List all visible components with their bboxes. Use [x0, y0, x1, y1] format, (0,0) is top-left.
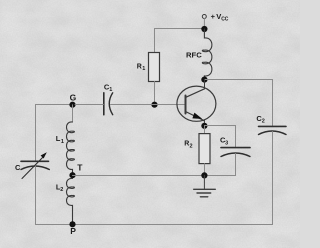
Vcc terminal [202, 15, 206, 19]
svg-text:3: 3 [225, 140, 228, 146]
svg-text:2: 2 [262, 119, 265, 125]
wire C1 to base [111, 104, 186, 106]
wire C3 bottom lead [235, 154, 237, 176]
node junction base/R1 [151, 102, 157, 108]
wire right rail upper [272, 80, 274, 127]
wire bottom rail [36, 224, 273, 226]
wire G to C1 [75, 104, 103, 106]
capacitor C2 [259, 126, 287, 134]
label C2 [256, 114, 264, 125]
wire top rail to R1 [155, 28, 205, 30]
wire R1 top lead [154, 29, 156, 53]
node T [69, 172, 75, 178]
node emitter junction [201, 123, 207, 129]
wire collector to right rail [204, 79, 272, 81]
svg-text:2: 2 [60, 187, 63, 193]
label L1 [56, 134, 64, 145]
svg-text:T: T [77, 162, 83, 172]
node collector junction [201, 77, 207, 83]
inductor L1 [67, 122, 75, 175]
svg-text:+: + [211, 12, 216, 21]
variable capacitor C [21, 152, 49, 178]
wire top left to node G [36, 104, 73, 106]
svg-text:P: P [70, 226, 76, 236]
wire R2 top lead [204, 126, 206, 134]
wire left rail upper [35, 105, 37, 162]
label R1 [137, 63, 146, 72]
wire right rail lower [272, 132, 274, 225]
svg-text:2: 2 [190, 143, 193, 149]
wire G to L1 [72, 105, 74, 122]
label R2 [184, 141, 192, 150]
transistor Q1 [177, 80, 216, 126]
svg-text:1: 1 [61, 139, 64, 145]
wire T to C3 [73, 175, 236, 177]
inductor L2 [67, 178, 75, 224]
label C3 [220, 136, 228, 147]
node P [69, 221, 75, 227]
wire Vcc stub [203, 19, 205, 29]
svg-text:G: G [70, 92, 77, 102]
svg-text:R: R [137, 63, 142, 70]
resistor R2 [199, 134, 210, 164]
node G [69, 102, 75, 108]
resistor R1 [149, 53, 160, 82]
svg-text:C: C [15, 163, 21, 172]
wire C3 top lead [235, 126, 237, 148]
wire emitter to C3 [204, 125, 235, 127]
label +Vcc [211, 12, 229, 23]
svg-text:1: 1 [142, 66, 145, 72]
ground [194, 176, 216, 197]
node ground junction [201, 172, 207, 178]
capacitor C3 [221, 148, 250, 157]
wire R1 bottom lead [154, 82, 156, 105]
capacitor C1 [104, 93, 113, 115]
inductor RFC [202, 29, 212, 80]
wire R2 bottom lead [204, 164, 206, 176]
svg-text:CC: CC [221, 17, 229, 23]
node junction at Vcc rail [201, 26, 207, 32]
wire left rail lower [35, 166, 37, 225]
svg-text:RFC: RFC [186, 50, 202, 59]
label L2 [56, 182, 63, 193]
label C1 [104, 82, 112, 93]
svg-text:1: 1 [109, 87, 112, 93]
